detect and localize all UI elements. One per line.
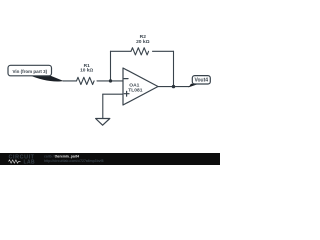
- svg-text:Vin (from part 3): Vin (from part 3): [12, 69, 47, 74]
- svg-text:TL081: TL081: [128, 88, 142, 94]
- svg-text:Vout4: Vout4: [195, 78, 209, 84]
- svg-text:20 kΩ: 20 kΩ: [136, 39, 150, 45]
- svg-text:LAB: LAB: [24, 159, 35, 165]
- svg-text:http://circuitlab.com/c/727a6m: http://circuitlab.com/c/727a6mp3bvf8: [44, 159, 104, 163]
- svg-text:10 kΩ: 10 kΩ: [80, 67, 93, 73]
